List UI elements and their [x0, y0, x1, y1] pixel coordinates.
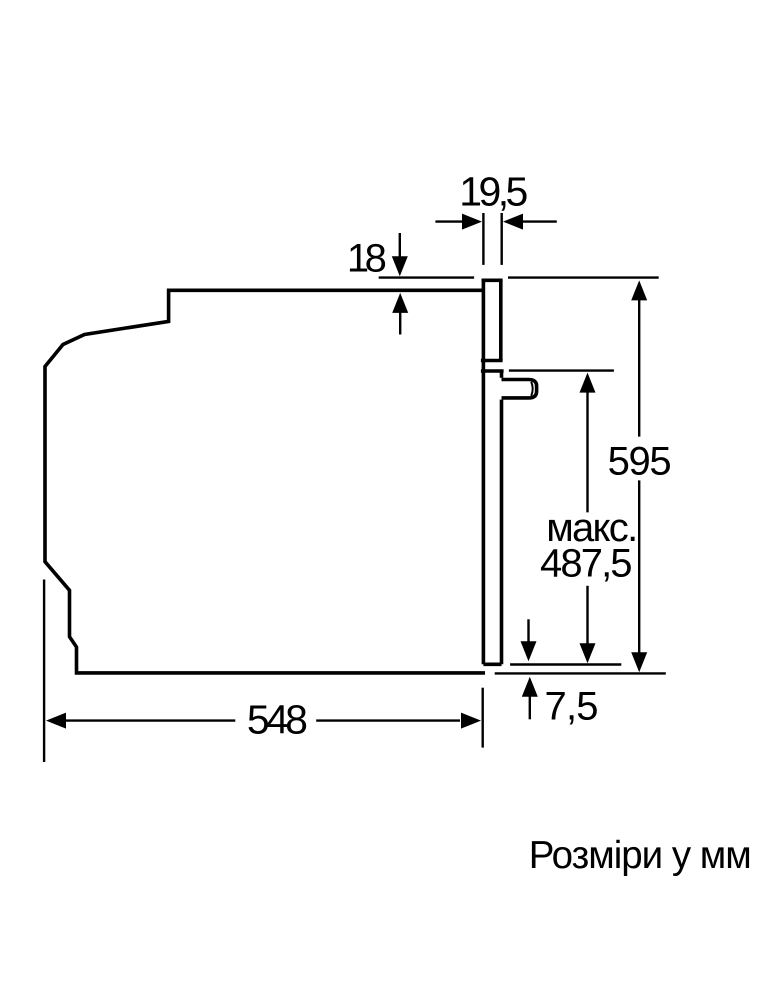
svg-text:7,5: 7,5: [545, 684, 599, 728]
svg-text:Розміри у мм: Розміри у мм: [529, 834, 752, 877]
svg-text:19,5: 19,5: [459, 168, 528, 214]
svg-text:548: 548: [247, 697, 308, 743]
svg-text:18: 18: [347, 236, 387, 280]
svg-text:487,5: 487,5: [540, 541, 633, 585]
svg-text:595: 595: [608, 440, 672, 484]
